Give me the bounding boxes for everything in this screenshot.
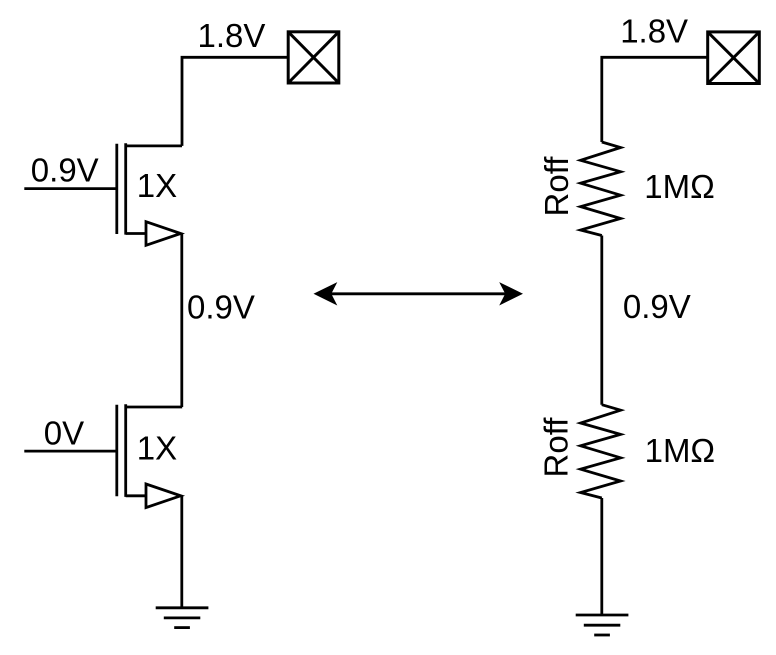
ground GND2 (right) (576, 615, 629, 635)
svg-text:1.8V: 1.8V (620, 13, 688, 50)
svg-text:0.9V: 0.9V (31, 152, 99, 189)
nmos M1 channel (124, 143, 127, 234)
ground GND1 (left) (156, 608, 209, 628)
resistor R2 (Roff 1M, bottom) (581, 405, 621, 498)
wire: pad P2 to R1 top (602, 57, 708, 142)
resistor R1 (Roff 1M, top) (581, 142, 621, 236)
svg-text:0.9V: 0.9V (187, 289, 255, 326)
nmos M1 gate lead wire (24, 187, 117, 190)
nmos M2 channel (124, 404, 127, 497)
nmos M2 gate lead wire (24, 450, 117, 453)
wire: R2 bottom to ground (600, 498, 603, 615)
svg-text:1MΩ: 1MΩ (644, 168, 715, 205)
svg-text:1MΩ: 1MΩ (645, 432, 716, 469)
svg-text:1.8V: 1.8V (198, 17, 266, 54)
equivalence arrow (double headed) (314, 282, 524, 305)
nmos M2 drain lead (126, 406, 183, 409)
pad P2 (bond pad, right 1.8V) (708, 32, 760, 84)
nmos M1 drain lead (126, 144, 182, 147)
nmos M2 source arrow (146, 484, 181, 508)
pad P1 (bond pad, left 1.8V) (288, 32, 339, 83)
svg-text:0.9V: 0.9V (623, 288, 691, 325)
svg-text:Roff: Roff (538, 417, 575, 478)
wire: R1 bottom to R2 top (600, 236, 603, 405)
wire: M1 source to M2 drain (180, 234, 183, 408)
wire: pad P1 to M1 drain (182, 57, 288, 146)
nmos M1 gate bar (115, 144, 118, 234)
nmos M2 gate bar (115, 405, 118, 497)
nmos M1 source lead (126, 232, 146, 235)
nmos M1 source arrow (146, 222, 181, 246)
svg-text:Roff: Roff (538, 156, 575, 217)
svg-text:1X: 1X (137, 167, 177, 204)
svg-text:1X: 1X (137, 430, 177, 467)
nmos M2 source lead (126, 494, 146, 497)
wire: M2 source to ground (180, 496, 183, 608)
svg-text:0V: 0V (44, 414, 84, 451)
